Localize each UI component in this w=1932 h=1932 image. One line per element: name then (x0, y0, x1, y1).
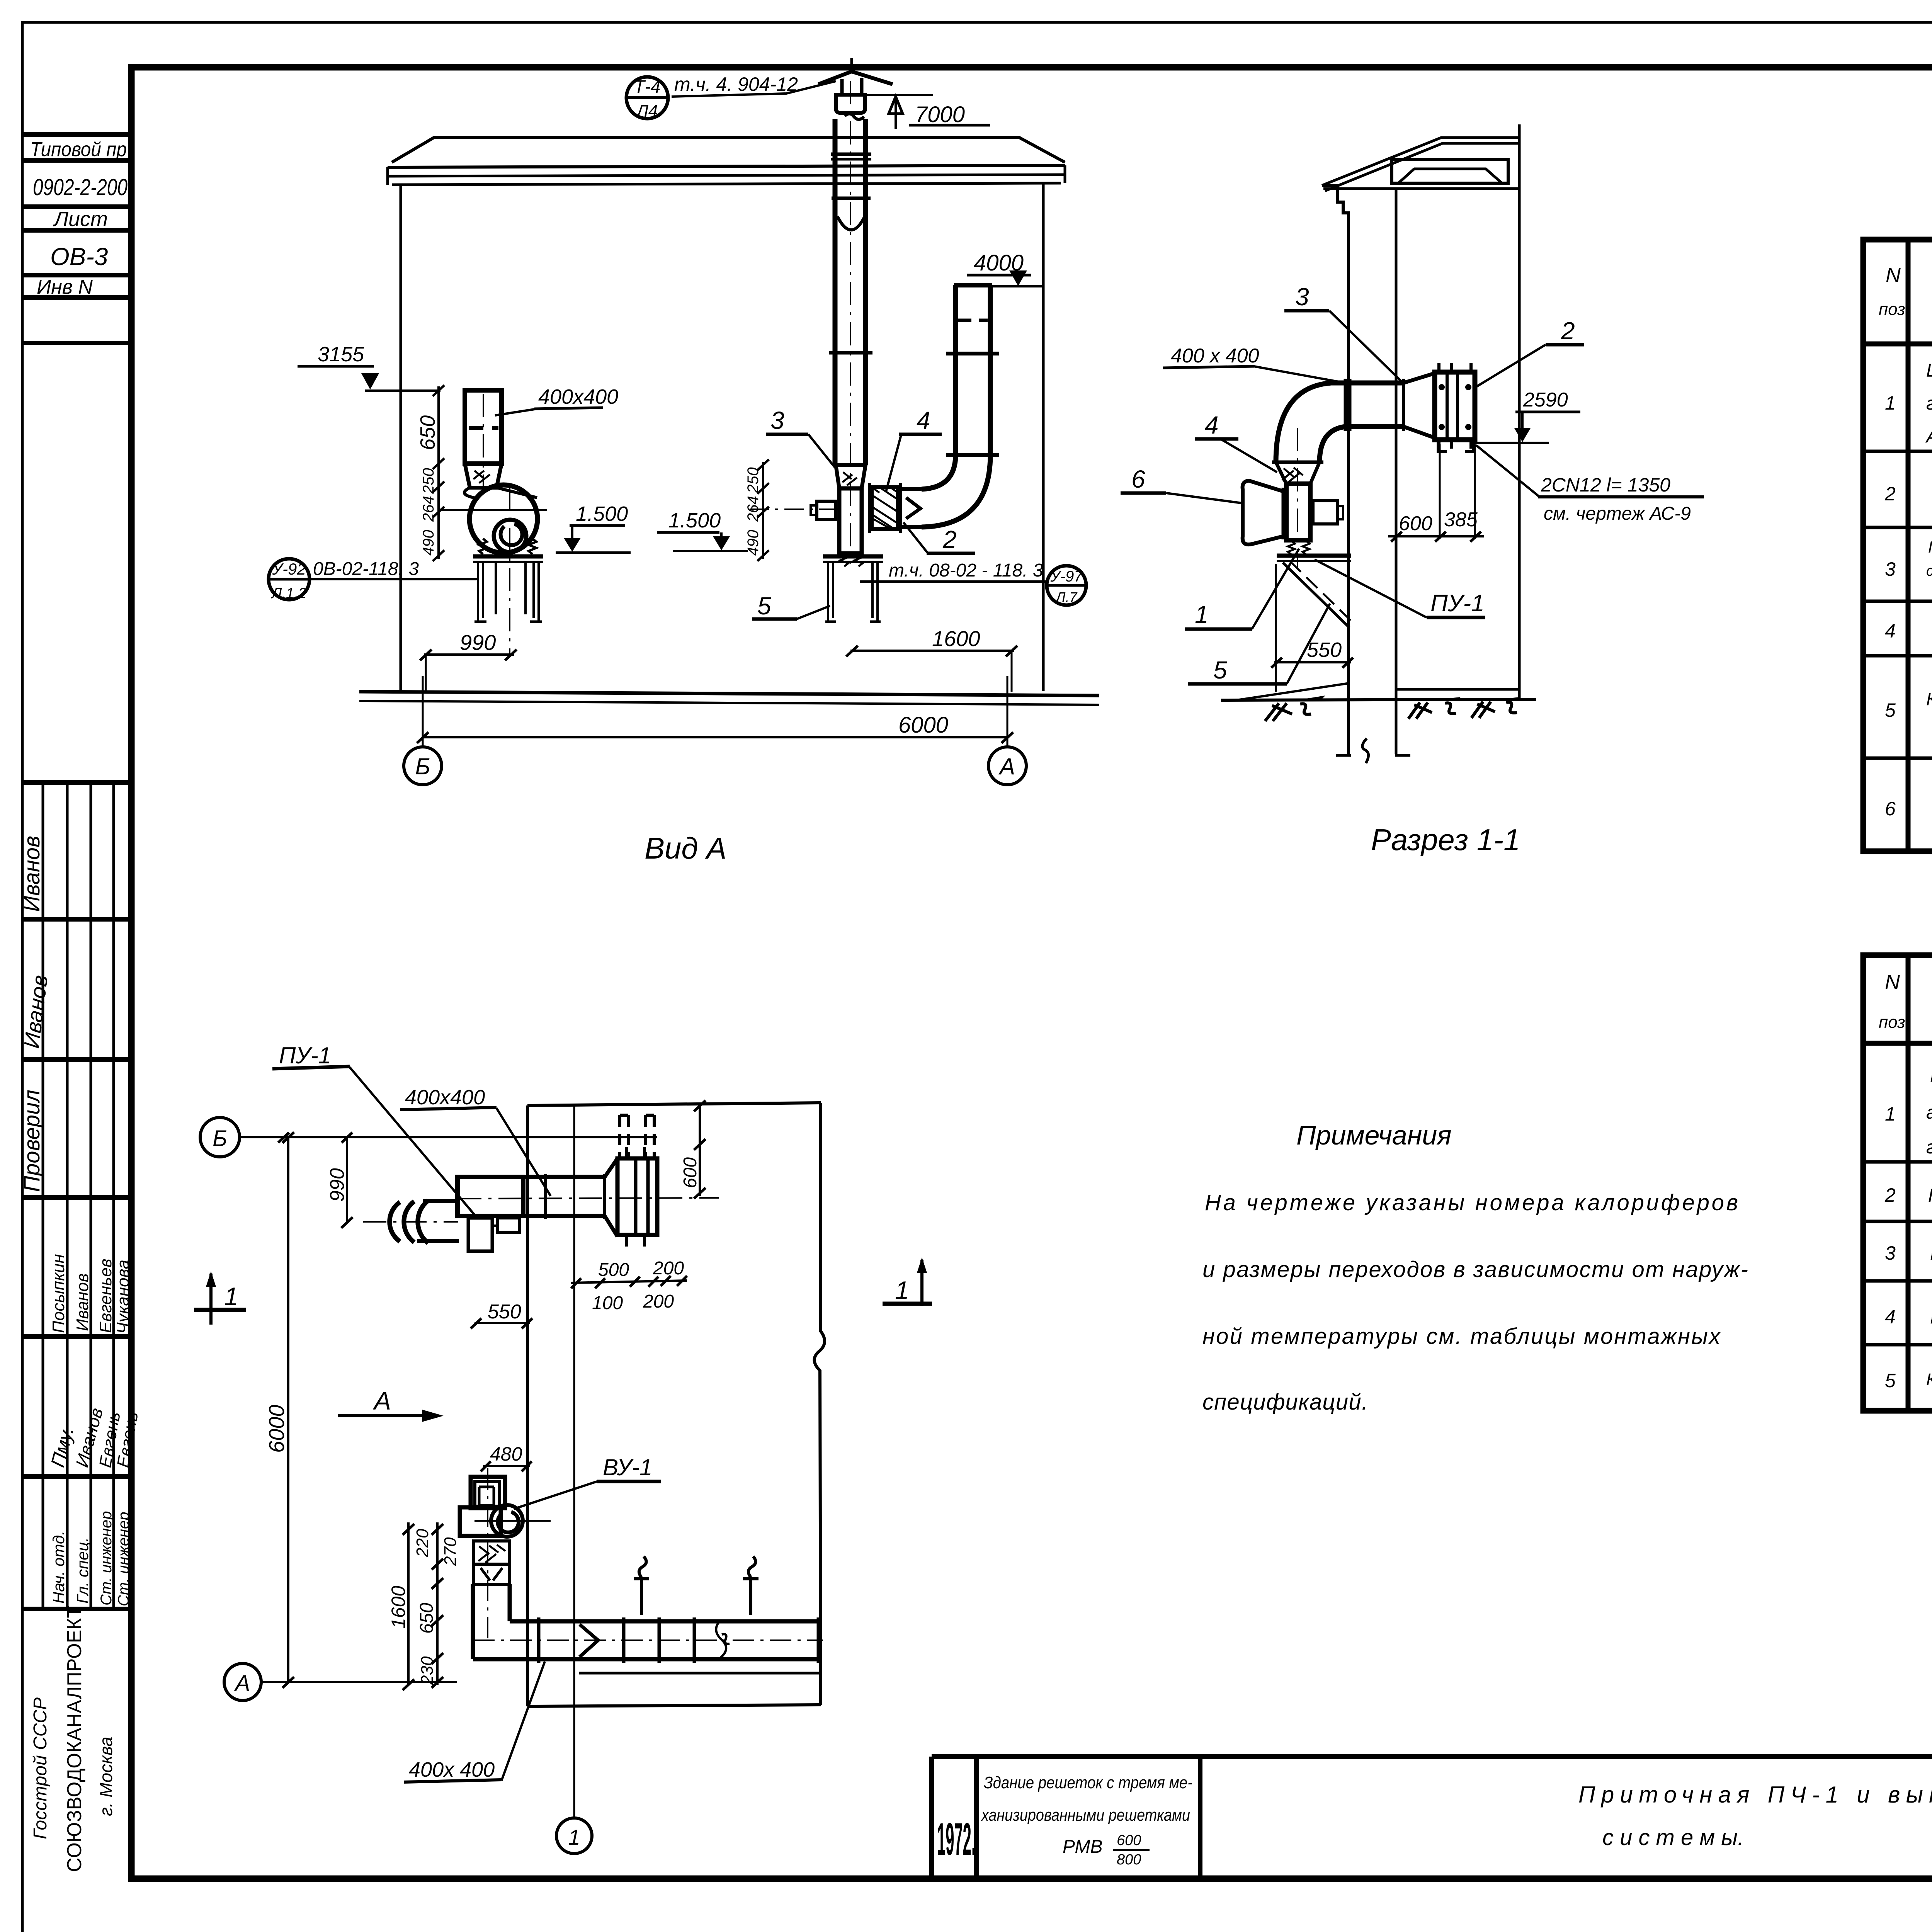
SECTION-11 (1121, 124, 1704, 857)
ground lines (359, 692, 1099, 696)
wall break squiggle (1336, 738, 1410, 763)
heater support channels (1438, 442, 1474, 452)
svg-text:2590: 2590 (1523, 389, 1568, 411)
svg-text:250: 250 (420, 468, 437, 494)
level mark 7000 (867, 94, 933, 96)
building roof (perspective) (392, 138, 1065, 162)
svg-text:Ст. инженер: Ст. инженер (115, 1512, 132, 1606)
heater (section) (1435, 372, 1475, 440)
svg-text:агрегат Ц4-70N4 Пр0° с элект: агрегат Ц4-70N4 Пр0° с электродви- (1926, 1102, 1932, 1123)
svg-text:ПУ-1: ПУ-1 (1430, 590, 1485, 617)
svg-text:Т-4: Т-4 (634, 77, 661, 97)
svg-text:и размеры переходов в зависимо: и размеры переходов в зависимости от нар… (1202, 1257, 1748, 1282)
svg-text:гат Ц4-70 N4 Л.0° с электродви: гат Ц4-70 N4 Л.0° с электродвигателем (1926, 393, 1932, 414)
svg-text:Лист: Лист (53, 207, 108, 231)
svg-text:2: 2 (1561, 317, 1575, 345)
svg-text:4: 4 (1885, 620, 1896, 642)
svg-text:100: 100 (592, 1293, 623, 1313)
svg-text:2СN12 l= 1350: 2СN12 l= 1350 (1541, 474, 1670, 496)
spec table VU-1 text (1879, 971, 1932, 1410)
svg-text:400х 400: 400х 400 (409, 1758, 495, 1781)
svg-text:поз.: поз. (1879, 1013, 1910, 1032)
svg-text:230: 230 (418, 1656, 437, 1685)
svg-text:стали δ=1мм l=500мм: стали δ=1мм l=500мм (1926, 563, 1932, 579)
svg-text:Вид А: Вид А (645, 831, 726, 865)
dim 600 right (699, 1103, 701, 1196)
TITLEBLOCK (932, 1727, 1932, 1879)
svg-text:385: 385 (1444, 509, 1478, 531)
svg-text:4: 4 (1885, 1306, 1896, 1328)
grille RMV plan (617, 1158, 657, 1235)
svg-text:1600: 1600 (932, 626, 980, 651)
svg-text:Переход из лист ст. δ=1мм d40: Переход из лист ст. δ=1мм d400-400х400 (1928, 1185, 1932, 1206)
dim chain right (762, 462, 764, 559)
diagonal brace (1283, 563, 1349, 628)
svg-text:6000: 6000 (898, 713, 948, 738)
PU-1 fan unit elevation (836, 465, 866, 488)
svg-text:Б: Б (415, 753, 430, 779)
NOTES (1202, 1120, 1748, 1415)
svg-text:Центробежный вентиляторный аг: Центробежный вентиляторный агре- (1926, 361, 1932, 381)
duct break mark (716, 1621, 730, 1659)
stand VU-1 (473, 554, 543, 559)
svg-text:ВУ-1: ВУ-1 (603, 1454, 652, 1480)
svg-text:А: А (998, 753, 1015, 779)
building walls (plan) (527, 1103, 821, 1105)
svg-text:400х400: 400х400 (538, 385, 618, 408)
motor (1313, 501, 1338, 524)
svg-text:СОЮЗВОДОКАНАЛПРОЕКТ: СОЮЗВОДОКАНАЛПРОЕКТ (63, 1606, 86, 1872)
svg-text:5: 5 (1885, 1370, 1896, 1391)
svg-text:Переход из лист.: Переход из лист. (1928, 538, 1932, 556)
axis bubble A plan (224, 1663, 261, 1701)
svg-text:480: 480 (490, 1443, 522, 1465)
springs (479, 539, 487, 554)
PLAN (194, 1043, 932, 1854)
ceiling line (1323, 187, 1519, 190)
svg-text:Инв N: Инв N (37, 276, 93, 298)
svg-text:Приточная ПЧ-1 и вытяжная: Приточная ПЧ-1 и вытяжная ВЧ-1 (1578, 1782, 1932, 1808)
svg-text:Разрез 1-1: Разрез 1-1 (1371, 823, 1520, 857)
grille risers (634, 1556, 649, 1615)
main strip (932, 1754, 1932, 1759)
axis bubble B plan (200, 1117, 240, 1157)
svg-text:Посыпкин: Посыпкин (49, 1254, 68, 1333)
flexible insert (hatched) (1276, 462, 1320, 484)
svg-text:400х400: 400х400 (405, 1086, 485, 1109)
VU-1 fan unit elevation (465, 390, 502, 464)
svg-text:Гибкая вставка ВГВ — 4: Гибкая вставка ВГВ — 4 (1930, 1306, 1932, 1328)
svg-text:1972.: 1972. (937, 1814, 976, 1865)
svg-text:Типовой пр: Типовой пр (30, 138, 127, 161)
svg-text:Ст. инженер: Ст. инженер (98, 1511, 115, 1605)
svg-text:Госстрой СССР: Госстрой СССР (30, 1697, 51, 1839)
svg-text:0В-02-118. 3: 0В-02-118. 3 (313, 559, 419, 579)
svg-text:264: 264 (420, 496, 437, 522)
svg-text:А: А (372, 1386, 391, 1415)
ground line (1221, 699, 1536, 700)
svg-text:т.ч. 4. 904-12: т.ч. 4. 904-12 (674, 73, 798, 95)
svg-text:Иванов: Иванов (19, 836, 44, 912)
svg-text:3: 3 (1885, 558, 1896, 580)
callout circle T-4/L4 (626, 77, 668, 119)
svg-text:0902-2-200: 0902-2-200 (33, 174, 128, 200)
svg-text:600: 600 (680, 1157, 701, 1188)
fan PU-1 plan (457, 1177, 523, 1216)
svg-text:Гл. спец.: Гл. спец. (73, 1537, 92, 1604)
svg-text:1: 1 (895, 1276, 909, 1304)
svg-text:с и с т е м ы.: с и с т е м ы. (1602, 1825, 1744, 1850)
svg-text:1: 1 (224, 1282, 238, 1311)
chimney cap (850, 58, 853, 71)
stamp boxes horizontals (22, 132, 131, 137)
VIEW-A (269, 58, 1099, 865)
inner vertical dividers of signature table (42, 782, 44, 1609)
elbow up (922, 455, 990, 527)
svg-text:650: 650 (416, 415, 439, 450)
left dim chains (407, 1522, 410, 1685)
transition with vanes (474, 1564, 509, 1584)
dim 6000 vertical (287, 1137, 289, 1682)
svg-text:Центробежный вентиляторный: Центробежный вентиляторный (1930, 1066, 1932, 1086)
fan VU-1 plan (471, 1477, 505, 1508)
axis bubble A (988, 747, 1026, 785)
roof slope (double line) (1322, 138, 1519, 185)
svg-text:Евгеньев: Евгеньев (96, 1259, 115, 1333)
svg-text:1: 1 (568, 1825, 580, 1849)
svg-text:3: 3 (770, 406, 784, 434)
svg-text:Л.1.2: Л.1.2 (270, 585, 306, 602)
exhaust duct down and elbow (471, 1584, 475, 1659)
svg-text:4: 4 (1205, 411, 1219, 439)
svg-text:Чуканова: Чуканова (114, 1260, 133, 1334)
transition to heater (1403, 373, 1435, 438)
svg-text:У-92: У-92 (272, 560, 306, 578)
axis bubble B (404, 747, 442, 785)
transition to elbow with vane (900, 487, 922, 491)
fan body (section) (1286, 484, 1310, 540)
svg-text:Примечания: Примечания (1296, 1120, 1452, 1150)
cornice steps + wall outer face (1322, 185, 1349, 754)
svg-text:1.500: 1.500 (576, 502, 628, 526)
spec table VU-1 grid (1863, 955, 1932, 1411)
svg-text:3: 3 (1295, 283, 1309, 311)
intake cone (1243, 481, 1286, 544)
svg-text:У-97: У-97 (1050, 568, 1083, 585)
svg-text:2: 2 (1884, 1184, 1896, 1206)
svg-text:6: 6 (1885, 798, 1896, 820)
diffuser to grille (605, 1158, 617, 1236)
svg-text:т.ч. 08-02 - 118. 3: т.ч. 08-02 - 118. 3 (889, 560, 1043, 581)
svg-text:550: 550 (488, 1301, 521, 1323)
section mark 1 right (920, 1260, 923, 1306)
fan centerline (1297, 428, 1298, 568)
cornice lines (388, 165, 1065, 167)
flexible bellows arcs (389, 1202, 400, 1242)
svg-text:Б: Б (213, 1126, 227, 1151)
svg-text:Нач. отд.: Нач. отд. (49, 1531, 68, 1604)
svg-text:1600: 1600 (388, 1586, 409, 1629)
callout circle U-92 (269, 559, 310, 600)
svg-text:2: 2 (942, 526, 957, 553)
svg-text:1.500: 1.500 (668, 509, 721, 532)
svg-text:АОЛ2-11-4 0,6квт 1410 об/мин: АОЛ2-11-4 0,6квт 1410 об/мин. (1925, 426, 1932, 447)
svg-text:990: 990 (326, 1168, 349, 1202)
svg-text:Мягкая вставка 280х280 — d 4: Мягкая вставка 280х280 — d 400 (1930, 1242, 1932, 1264)
building walls (400, 185, 402, 691)
bracket platform (1277, 554, 1351, 558)
svg-text:г. Москва: г. Москва (96, 1737, 116, 1816)
svg-text:3: 3 (1885, 1242, 1896, 1264)
svg-text:990: 990 (460, 630, 496, 655)
svg-text:ханизированными решетками: ханизированными решетками (981, 1806, 1190, 1825)
svg-text:N: N (1886, 264, 1901, 287)
svg-text:Здание решеток с тремя ме-: Здание решеток с тремя ме- (984, 1773, 1192, 1792)
svg-text:1: 1 (1885, 1103, 1896, 1125)
heater KMC (872, 487, 898, 529)
section mark 1 left (209, 1274, 213, 1325)
svg-text:250: 250 (745, 467, 762, 493)
horizontal supply duct through wall (1331, 381, 1403, 386)
exhaust stack d400 (833, 119, 838, 465)
svg-text:Иванов: Иванов (73, 1273, 92, 1331)
svg-text:600: 600 (1117, 1832, 1141, 1849)
LEFT STAMP COLUMN (22, 67, 131, 1879)
spec table PU-1 grid (1863, 240, 1932, 851)
svg-text:264: 264 (745, 496, 762, 522)
dim 990 vertical (346, 1137, 348, 1222)
svg-text:Л.7: Л.7 (1055, 589, 1078, 605)
svg-text:3155: 3155 (318, 343, 364, 366)
svg-text:800: 800 (1117, 1852, 1141, 1868)
wall inner face (1395, 189, 1398, 754)
svg-text:270: 270 (441, 1537, 460, 1566)
svg-text:6: 6 (1131, 465, 1145, 493)
column right edge (129, 67, 133, 1879)
svg-text:490: 490 (420, 530, 437, 556)
svg-text:1: 1 (1195, 600, 1209, 628)
svg-text:4: 4 (917, 406, 930, 434)
svg-text:Кронштейн для установки вентил: Кронштейн для установки вентилятора (1926, 1370, 1932, 1389)
svg-text:А: А (234, 1671, 250, 1696)
svg-text:200: 200 (643, 1291, 674, 1312)
elbow down to fan (1276, 383, 1331, 462)
svg-text:ОВ-3: ОВ-3 (50, 243, 108, 270)
svg-text:Л4: Л4 (636, 102, 658, 121)
svg-text:6000: 6000 (264, 1405, 289, 1453)
svg-text:7000: 7000 (915, 102, 965, 127)
svg-text:2: 2 (1884, 483, 1896, 505)
svg-text:200: 200 (653, 1258, 684, 1279)
svg-text:На чертеже указаны номера кало: На чертеже указаны номера калориферов (1205, 1190, 1738, 1215)
flexible insert hatched (474, 1541, 509, 1564)
svg-text:600: 600 (1399, 512, 1432, 535)
svg-text:400 х 400: 400 х 400 (1171, 345, 1259, 367)
svg-text:650: 650 (417, 1603, 437, 1634)
svg-text:РМВ: РМВ (1063, 1837, 1102, 1857)
svg-text:5: 5 (757, 592, 771, 620)
anchor bolts dashed (620, 1115, 654, 1158)
svg-text:5: 5 (1213, 656, 1227, 684)
supply duct plan (523, 1175, 605, 1179)
svg-text:220: 220 (413, 1529, 432, 1558)
svg-text:500: 500 (598, 1260, 629, 1280)
building right edge line (1518, 124, 1521, 699)
grid axis 1 vertical (573, 1105, 575, 1818)
svg-text:Кронштейн для установки вент: Кронштейн для установки вентилятора (1926, 689, 1932, 709)
springs under fan (1288, 541, 1310, 554)
spec table PU-1 text (1879, 254, 1932, 837)
svg-text:N: N (1885, 971, 1900, 994)
svg-text:гателем АОЛ2 11-4 0,6 квт. 14: гателем АОЛ2 11-4 0,6 квт. 1410 об/мин (1926, 1137, 1932, 1158)
dim chain left (437, 386, 440, 559)
svg-text:550: 550 (1307, 638, 1342, 662)
svg-text:1: 1 (1885, 392, 1896, 414)
svg-text:см. чертеж АС-9: см. чертеж АС-9 (1544, 503, 1691, 524)
svg-text:ПУ-1: ПУ-1 (279, 1043, 331, 1068)
skylight curb on roof (1392, 160, 1508, 183)
svg-text:спецификаций.: спецификаций. (1202, 1389, 1368, 1415)
svg-text:поз: поз (1879, 300, 1905, 319)
svg-text:Проверил: Проверил (19, 1090, 44, 1192)
channel symbols (1265, 703, 1311, 721)
svg-text:5: 5 (1885, 699, 1896, 721)
